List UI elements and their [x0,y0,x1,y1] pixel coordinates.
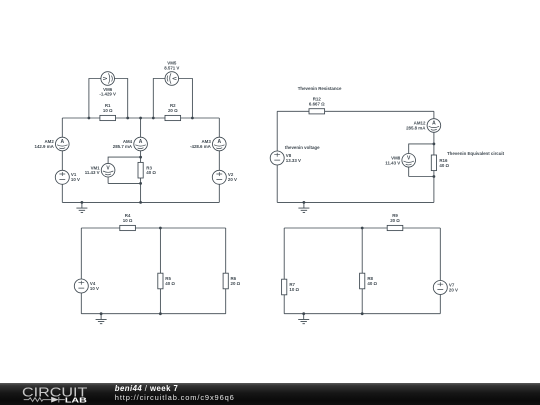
wire VM5 loop [153,79,192,119]
wire left branch [61,118,63,202]
wire right branch [218,118,220,202]
ammeter AM12 [427,119,441,133]
svg-text:285.7 mA: 285.7 mA [113,144,133,149]
svg-text:10 V: 10 V [90,286,99,291]
wire bottom [81,313,225,315]
svg-text:285.8 mA: 285.8 mA [406,125,426,130]
node ground1 [81,201,84,204]
svg-text:thevenin voltage: thevenin voltage [285,145,320,150]
wire VM8 loop [409,144,434,177]
voltmeter VM8 [402,154,416,168]
wire right branch [439,228,441,314]
ground circuit4 [298,314,309,324]
node bus-VM5-left [152,117,155,120]
ammeter AM4 [134,137,148,151]
node bus-VM5-right [191,117,194,120]
ammeter AM3 [213,137,227,151]
resistor R4 [120,225,136,230]
resistor R6 [223,273,228,289]
voltage source V1 [55,170,69,184]
node ground4 [302,312,305,315]
wire middle branch [140,118,142,202]
voltage source V7 [433,281,447,295]
ammeter AM2 [56,137,70,151]
svg-text:10 Ω: 10 Ω [103,108,113,113]
svg-text:11.43 V: 11.43 V [385,160,400,165]
wire middle branch [361,228,363,314]
wire VM1 loop [108,157,141,183]
wire VM6 loop [89,79,128,119]
svg-text:142.9 mA: 142.9 mA [35,144,55,149]
wire top [81,227,225,229]
wire left branch [283,228,285,314]
svg-text:8.571 V: 8.571 V [164,65,179,70]
svg-text:beni44 / week 7: beni44 / week 7 [115,384,178,393]
voltage source V4 [74,279,88,293]
wire left branch [80,228,82,314]
svg-text:10 Ω: 10 Ω [289,287,299,292]
svg-text:20 Ω: 20 Ω [231,281,241,286]
svg-text:20 Ω: 20 Ω [390,218,400,223]
resistor R12 [309,109,325,114]
resistor R16 [431,155,436,171]
node bottom-middle3 [159,312,162,315]
wire left branch [276,111,278,202]
wire bus top [62,117,219,119]
logo diode [51,397,59,403]
wire right branch [225,228,227,314]
resistor R1 [100,115,116,120]
svg-text:10 V: 10 V [71,177,80,182]
voltmeter VM5 [165,72,179,86]
svg-text:LAB: LAB [65,396,88,405]
node VM1-bottom [139,182,142,185]
node bus-VM6-left [88,117,91,120]
voltage source V2 [212,170,226,184]
logo resistor zigzag [24,398,52,402]
node bus-middle [139,117,142,120]
node bus-VM6-right [126,117,129,120]
svg-text:Thevenin Equivalent circuit: Thevenin Equivalent circuit [447,151,505,156]
node ground2 [303,201,306,204]
svg-text:40 Ω: 40 Ω [146,170,156,175]
svg-text:http://circuitlab.com/c9x96q6: http://circuitlab.com/c9x96q6 [115,393,234,402]
resistor R5 [158,273,163,289]
svg-text:20 Ω: 20 Ω [168,108,178,113]
svg-text:Thevenin Resistance: Thevenin Resistance [298,86,342,91]
svg-text:40 Ω: 40 Ω [165,281,175,286]
ground circuit3 [96,314,107,324]
voltmeter VM1 [101,163,115,177]
wire right branch [433,111,435,202]
resistor R8 [360,273,365,289]
resistor R9 [387,225,403,230]
node ground3 [100,312,103,315]
svg-text:40 Ω: 40 Ω [439,163,449,168]
wire top [277,110,434,112]
ground circuit2 [298,202,309,212]
svg-text:10 Ω: 10 Ω [123,218,133,223]
wire top [284,227,440,229]
wire bottom [277,201,434,203]
resistor R7 [282,279,287,295]
svg-text:6.667 Ω: 6.667 Ω [309,101,325,106]
node top-middle3 [159,227,162,230]
svg-text:13.33 V: 13.33 V [286,158,301,163]
node VM1-top [139,156,142,159]
resistor R2 [165,115,181,120]
svg-text:40 Ω: 40 Ω [367,281,377,286]
wire bottom [284,313,440,315]
svg-text:11.43 V: 11.43 V [85,170,100,175]
voltmeter VM6 [101,72,115,86]
svg-text:-1.429 V: -1.429 V [99,92,116,97]
node bottom-middle4 [361,312,364,315]
resistor R3 [138,162,143,178]
wire bottom [62,201,219,203]
node bottom-middle [139,201,142,204]
node VM8-top [433,143,436,146]
wire middle branch [159,228,161,314]
svg-text:20 V: 20 V [228,177,237,182]
voltage source V8 [270,151,284,165]
node VM8-bottom [433,175,436,178]
node top-middle4 [361,227,364,230]
svg-text:20 V: 20 V [449,288,458,293]
svg-text:-428.6 mA: -428.6 mA [190,144,212,149]
ground circuit1 [76,202,87,212]
